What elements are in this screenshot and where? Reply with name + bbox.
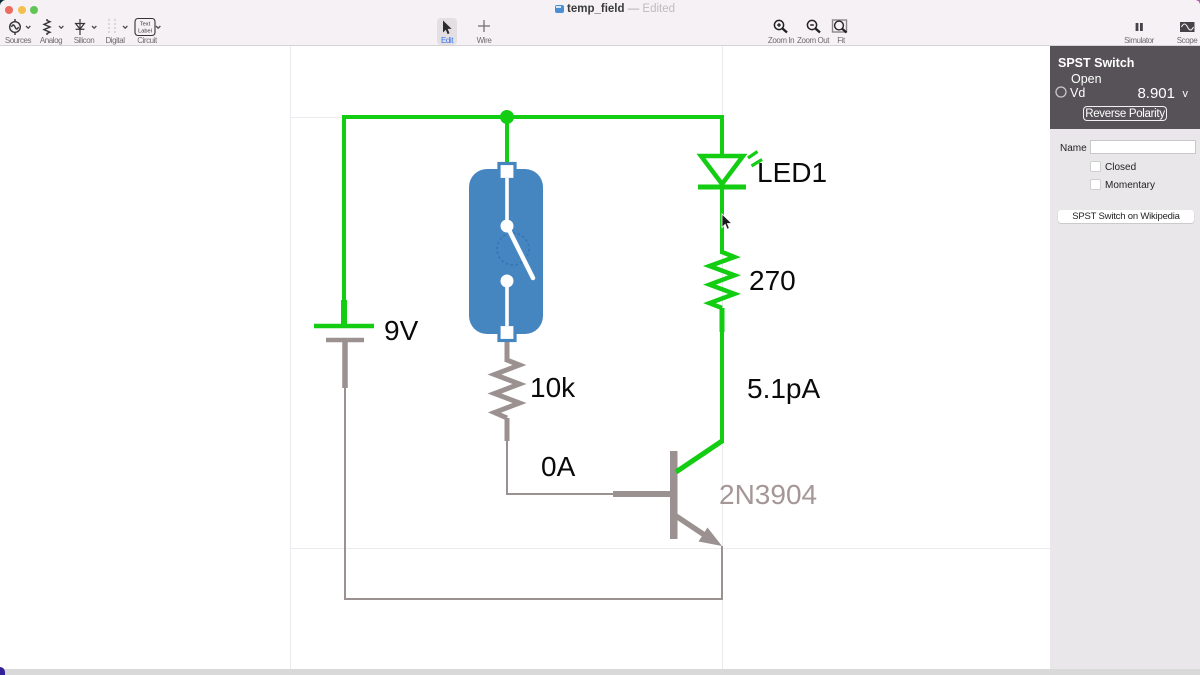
- svg-text:2N3904: 2N3904: [719, 479, 817, 510]
- bottom strip: [0, 669, 1200, 675]
- resistor R1 lead: [505, 418, 510, 441]
- window title: [555, 5, 564, 13]
- svg-text:LED1: LED1: [757, 157, 827, 188]
- wire plus icon: [478, 20, 490, 32]
- simulator pause icon: [1136, 23, 1143, 31]
- edit button highlight: [437, 18, 457, 45]
- LED label LED1: [757, 157, 827, 188]
- top corners: [0, 0, 6, 6]
- wire base horizontal: [506, 493, 614, 495]
- switch S1 body: [469, 164, 543, 341]
- digital icon (faint): [109, 19, 115, 35]
- transistor Q1 2N3904: [613, 441, 722, 546]
- svg-text:10k: 10k: [530, 372, 576, 403]
- wire junction to switch: [505, 117, 509, 168]
- sources icon: [10, 19, 21, 35]
- battery B1: [314, 326, 374, 388]
- traffic lights: [5, 6, 13, 14]
- svg-text:9V: 9V: [384, 315, 419, 346]
- sidebar: [1050, 46, 1200, 669]
- svg-text:0A: 0A: [541, 451, 576, 482]
- toolbar: [0, 0, 1200, 46]
- switch lead to resistor: [505, 342, 510, 362]
- junction node: [500, 110, 514, 124]
- resistor R1 10k: [495, 360, 520, 418]
- wire left vertical: [342, 115, 346, 325]
- circuit icon (Text Label box): [135, 19, 155, 36]
- zoom in icon: [774, 20, 787, 32]
- wire battery to bottom: [344, 388, 346, 600]
- analog icon: [44, 19, 50, 35]
- LED D1: [698, 115, 762, 187]
- wire resistor to base corner: [506, 441, 508, 495]
- svg-text:5.1pA: 5.1pA: [747, 373, 820, 404]
- mouse cursor: [722, 214, 732, 229]
- toolbar icons svg: [0, 0, 1200, 46]
- switch contacts and arm: [501, 178, 534, 326]
- wire emitter riser: [721, 546, 723, 600]
- resistor R2 lead bottom: [720, 308, 725, 332]
- wire top horizontal: [344, 115, 722, 119]
- scope icon: [1180, 22, 1195, 32]
- wire bottom horizontal: [344, 598, 722, 600]
- resistor value 270: [749, 265, 796, 296]
- resistor value 10k: [530, 372, 576, 403]
- base current label 0A: [541, 451, 576, 482]
- transistor label 2N3904: [719, 479, 817, 510]
- svg-text:270: 270: [749, 265, 796, 296]
- switch rotation hint circle: [497, 233, 529, 265]
- bottom left purple blob: [0, 667, 5, 675]
- silicon icon: [76, 19, 85, 35]
- edit cursor icon: [443, 21, 452, 35]
- zoom out icon: [807, 20, 820, 32]
- battery value 9V: [384, 315, 419, 346]
- fit icon: [833, 20, 847, 33]
- resistor R2 lead top: [720, 188, 724, 254]
- resistor R2 270: [710, 252, 735, 308]
- wire collector vertical: [720, 330, 724, 443]
- collector current label 5.1pA: [747, 373, 820, 404]
